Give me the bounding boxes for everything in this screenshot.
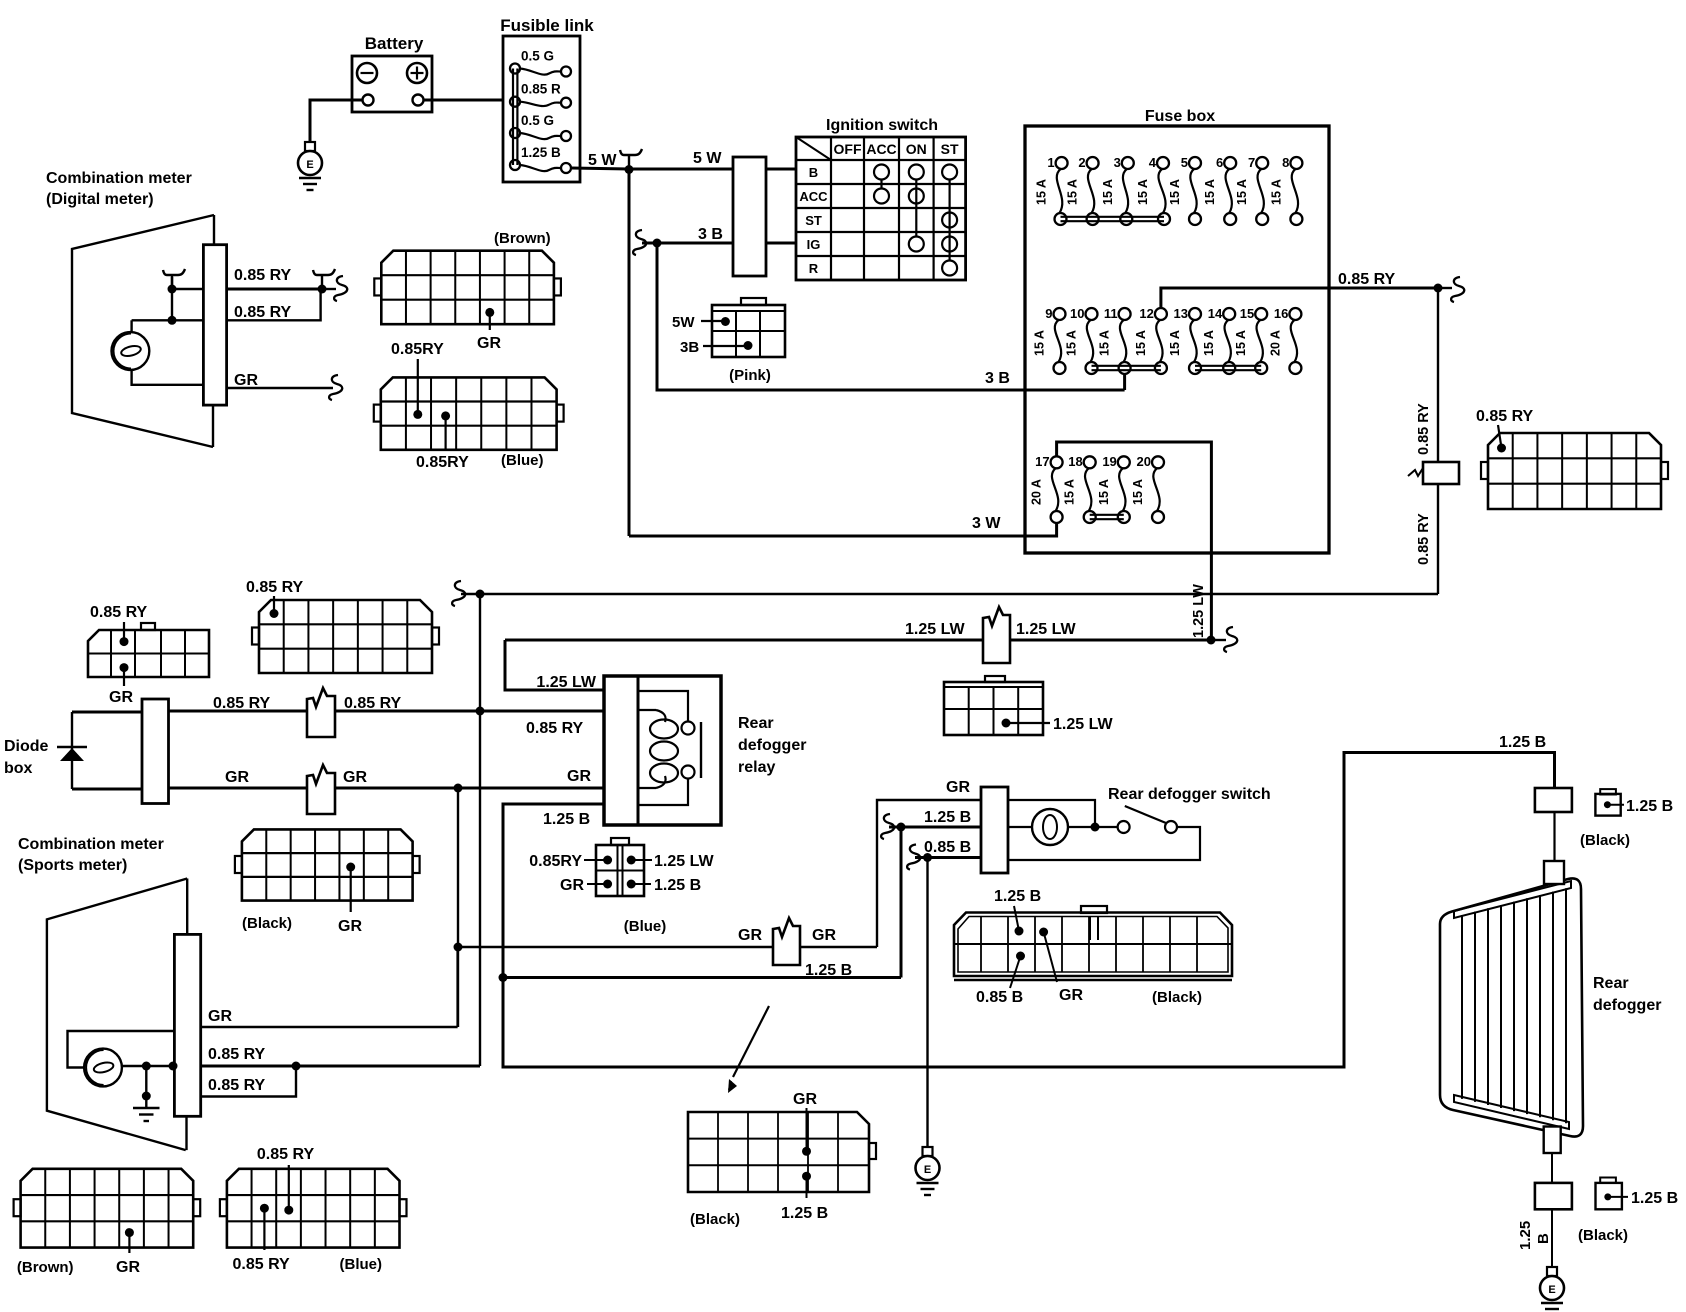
- svg-text:GR: GR: [116, 1259, 140, 1276]
- svg-text:9: 9: [1045, 306, 1052, 321]
- svg-text:0.85 RY: 0.85 RY: [90, 604, 148, 621]
- svg-text:(Digital meter): (Digital meter): [46, 191, 154, 208]
- svg-text:Rear: Rear: [738, 715, 774, 732]
- svg-text:1.25 B: 1.25 B: [1499, 734, 1546, 751]
- svg-text:ACC: ACC: [799, 189, 828, 204]
- svg-text:0.85 B: 0.85 B: [924, 839, 971, 856]
- svg-text:1.25 B: 1.25 B: [924, 809, 971, 826]
- svg-text:0.85 B: 0.85 B: [976, 989, 1023, 1006]
- svg-text:15 A: 15 A: [1168, 179, 1182, 205]
- svg-text:1.25 B: 1.25 B: [521, 145, 561, 160]
- svg-text:1.25 B: 1.25 B: [994, 888, 1041, 905]
- svg-text:15 A: 15 A: [1269, 179, 1283, 205]
- svg-text:Rear defogger switch: Rear defogger switch: [1108, 786, 1271, 803]
- svg-text:15 A: 15 A: [1101, 179, 1115, 205]
- svg-text:17: 17: [1035, 454, 1049, 469]
- svg-text:8: 8: [1282, 155, 1289, 170]
- svg-text:0.85 RY: 0.85 RY: [234, 267, 292, 284]
- svg-text:15 A: 15 A: [1131, 479, 1145, 505]
- svg-text:1.25 B: 1.25 B: [654, 877, 701, 894]
- svg-text:4: 4: [1149, 155, 1157, 170]
- svg-text:GR: GR: [208, 1008, 232, 1025]
- svg-text:GR: GR: [793, 1091, 817, 1108]
- svg-text:15 A: 15 A: [1035, 179, 1049, 205]
- svg-text:GR: GR: [946, 779, 970, 796]
- svg-text:1.25 LW: 1.25 LW: [1016, 621, 1076, 638]
- svg-text:GR: GR: [343, 769, 367, 786]
- svg-text:(Pink): (Pink): [729, 367, 771, 384]
- svg-text:15 A: 15 A: [1098, 330, 1112, 356]
- svg-text:0.85 RY: 0.85 RY: [344, 695, 402, 712]
- svg-text:0.85 RY: 0.85 RY: [1416, 513, 1432, 565]
- svg-text:0.85RY: 0.85RY: [391, 341, 444, 358]
- svg-text:2: 2: [1078, 155, 1085, 170]
- svg-text:GR: GR: [567, 768, 591, 785]
- svg-text:Fusible link: Fusible link: [500, 16, 594, 35]
- svg-text:B: B: [809, 165, 818, 180]
- svg-text:20 A: 20 A: [1030, 479, 1044, 505]
- svg-text:(Black): (Black): [1578, 1227, 1628, 1244]
- svg-text:box: box: [4, 760, 33, 777]
- svg-text:1.25 B: 1.25 B: [1626, 798, 1673, 815]
- svg-text:(Black): (Black): [1152, 989, 1202, 1006]
- svg-text:Combination meter: Combination meter: [46, 170, 192, 187]
- svg-text:1.25 B: 1.25 B: [781, 1205, 828, 1222]
- svg-text:10: 10: [1070, 306, 1084, 321]
- svg-text:15 A: 15 A: [1168, 330, 1182, 356]
- svg-text:(Brown): (Brown): [494, 230, 551, 247]
- svg-text:(Blue): (Blue): [501, 452, 544, 469]
- svg-text:12: 12: [1139, 306, 1153, 321]
- svg-text:OFF: OFF: [834, 141, 862, 157]
- svg-text:0.85 RY: 0.85 RY: [213, 695, 271, 712]
- svg-text:1.25 B: 1.25 B: [543, 811, 590, 828]
- svg-text:15 A: 15 A: [1136, 179, 1150, 205]
- svg-text:5 W: 5 W: [693, 150, 722, 167]
- svg-text:16: 16: [1274, 306, 1288, 321]
- svg-text:GR: GR: [560, 877, 584, 894]
- svg-text:15 A: 15 A: [1033, 330, 1047, 356]
- svg-text:(Black): (Black): [242, 915, 292, 932]
- svg-text:1.25 LW: 1.25 LW: [1053, 716, 1113, 733]
- svg-text:5: 5: [1181, 155, 1188, 170]
- svg-text:GR: GR: [812, 927, 836, 944]
- svg-text:1.25: 1.25: [1517, 1221, 1534, 1250]
- svg-text:GR: GR: [109, 689, 133, 706]
- svg-text:(Black): (Black): [1580, 832, 1630, 849]
- svg-text:5W: 5W: [672, 314, 695, 331]
- svg-text:E: E: [1548, 1284, 1555, 1296]
- svg-text:Combination meter: Combination meter: [18, 836, 164, 853]
- svg-text:IG: IG: [807, 237, 821, 252]
- svg-text:0.85 RY: 0.85 RY: [1416, 403, 1432, 455]
- svg-text:ACC: ACC: [866, 141, 896, 157]
- svg-text:Ignition switch: Ignition switch: [826, 117, 938, 134]
- svg-text:ST: ST: [941, 141, 959, 157]
- svg-text:1.25 LW: 1.25 LW: [536, 674, 596, 691]
- svg-text:ON: ON: [906, 141, 927, 157]
- svg-text:15: 15: [1240, 306, 1254, 321]
- svg-text:R: R: [809, 261, 819, 276]
- svg-text:(Blue): (Blue): [340, 1256, 383, 1273]
- svg-text:relay: relay: [738, 759, 775, 776]
- svg-text:GR: GR: [477, 335, 501, 352]
- svg-text:0.85 RY: 0.85 RY: [233, 1256, 291, 1273]
- svg-text:15 A: 15 A: [1066, 179, 1080, 205]
- svg-text:19: 19: [1102, 454, 1116, 469]
- svg-text:15 A: 15 A: [1065, 330, 1079, 356]
- svg-text:defogger: defogger: [1593, 997, 1661, 1014]
- svg-text:0.85 RY: 0.85 RY: [246, 579, 304, 596]
- svg-text:20: 20: [1137, 454, 1151, 469]
- svg-text:(Sports meter): (Sports meter): [18, 857, 127, 874]
- svg-text:3B: 3B: [680, 339, 699, 356]
- svg-text:18: 18: [1068, 454, 1082, 469]
- svg-text:Fuse box: Fuse box: [1145, 108, 1215, 125]
- svg-text:0.85RY: 0.85RY: [416, 454, 469, 471]
- svg-text:(Blue): (Blue): [624, 918, 667, 935]
- svg-text:0.85 RY: 0.85 RY: [257, 1146, 315, 1163]
- svg-text:0.5 G: 0.5 G: [521, 113, 554, 128]
- svg-text:15 A: 15 A: [1203, 179, 1217, 205]
- svg-text:0.85RY: 0.85RY: [529, 853, 582, 870]
- svg-text:13: 13: [1174, 306, 1188, 321]
- svg-text:15 A: 15 A: [1234, 330, 1248, 356]
- svg-text:Diode: Diode: [4, 738, 49, 755]
- svg-text:Battery: Battery: [365, 34, 424, 53]
- svg-text:20 A: 20 A: [1268, 330, 1282, 356]
- svg-text:3 B: 3 B: [698, 226, 723, 243]
- svg-text:ST: ST: [805, 213, 822, 228]
- svg-text:6: 6: [1216, 155, 1223, 170]
- svg-text:3 W: 3 W: [972, 515, 1001, 532]
- svg-text:1.25 B: 1.25 B: [805, 962, 852, 979]
- svg-text:1.25 LW: 1.25 LW: [905, 621, 965, 638]
- svg-text:defogger: defogger: [738, 737, 806, 754]
- svg-text:0.85 R: 0.85 R: [521, 82, 561, 97]
- svg-text:15 A: 15 A: [1235, 179, 1249, 205]
- svg-text:E: E: [924, 1164, 931, 1176]
- svg-text:0.5 G: 0.5 G: [521, 49, 554, 64]
- svg-text:15 A: 15 A: [1202, 330, 1216, 356]
- svg-text:0.85 RY: 0.85 RY: [1338, 271, 1396, 288]
- svg-text:3 B: 3 B: [985, 370, 1010, 387]
- svg-text:3: 3: [1114, 155, 1121, 170]
- svg-text:Rear: Rear: [1593, 975, 1629, 992]
- svg-text:15 A: 15 A: [1134, 330, 1148, 356]
- svg-text:1.25 B: 1.25 B: [1631, 1190, 1678, 1207]
- svg-text:0.85 RY: 0.85 RY: [526, 720, 584, 737]
- svg-text:E: E: [306, 159, 313, 171]
- svg-text:1.25 LW: 1.25 LW: [1191, 584, 1207, 638]
- svg-text:1.25 LW: 1.25 LW: [654, 853, 714, 870]
- svg-text:0.85 RY: 0.85 RY: [208, 1077, 266, 1094]
- svg-text:GR: GR: [225, 769, 249, 786]
- svg-text:(Brown): (Brown): [17, 1259, 74, 1276]
- svg-text:15 A: 15 A: [1097, 479, 1111, 505]
- svg-text:GR: GR: [234, 372, 258, 389]
- svg-text:0.85 RY: 0.85 RY: [1476, 408, 1534, 425]
- svg-text:GR: GR: [338, 918, 362, 935]
- svg-text:5 W: 5 W: [588, 152, 617, 169]
- svg-text:0.85 RY: 0.85 RY: [234, 304, 292, 321]
- svg-text:B: B: [1535, 1233, 1552, 1244]
- svg-text:1: 1: [1047, 155, 1054, 170]
- svg-text:15 A: 15 A: [1063, 479, 1077, 505]
- svg-text:0.85 RY: 0.85 RY: [208, 1046, 266, 1063]
- svg-text:11: 11: [1104, 306, 1118, 321]
- svg-text:(Black): (Black): [690, 1211, 740, 1228]
- svg-text:GR: GR: [738, 927, 762, 944]
- svg-text:14: 14: [1208, 306, 1223, 321]
- svg-text:7: 7: [1248, 155, 1255, 170]
- svg-text:GR: GR: [1059, 987, 1083, 1004]
